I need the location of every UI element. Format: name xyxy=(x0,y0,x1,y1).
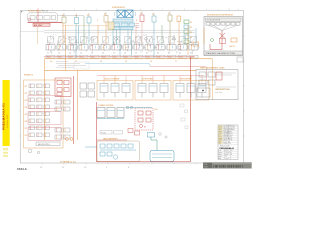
svg-text:1V12: 1V12 xyxy=(168,57,172,59)
svg-text:LH SYSTEM: LH SYSTEM xyxy=(142,78,153,80)
svg-text:2V7: 2V7 xyxy=(25,128,28,130)
svg-text:6: 6 xyxy=(140,9,141,11)
svg-text:1V13: 1V13 xyxy=(179,57,183,59)
svg-text:a8: a8 xyxy=(124,53,126,55)
svg-text:b4: b4 xyxy=(179,53,181,55)
svg-text:2V5: 2V5 xyxy=(25,114,28,116)
svg-text:a6: a6 xyxy=(102,53,104,55)
svg-text:1 von 4: 1 von 4 xyxy=(224,158,229,160)
svg-text:a7: a7 xyxy=(113,53,115,55)
svg-text:a2: a2 xyxy=(58,53,60,55)
svg-text:4: 4 xyxy=(96,9,97,11)
svg-text:a4: a4 xyxy=(80,53,82,55)
svg-text:max. 8 bar: max. 8 bar xyxy=(215,92,223,94)
svg-text:C: C xyxy=(230,158,231,160)
svg-text:STEUERUNG KOMPRESSOR: STEUERUNG KOMPRESSOR xyxy=(207,14,234,16)
svg-text:07: 07 xyxy=(75,61,77,63)
svg-text:V1: V1 xyxy=(62,15,64,17)
svg-text:2V3: 2V3 xyxy=(25,100,28,102)
svg-text:a3: a3 xyxy=(69,53,71,55)
svg-text:EINHEIT A: EINHEIT A xyxy=(24,74,33,77)
svg-text:08: 08 xyxy=(100,61,102,63)
svg-text:b1: b1 xyxy=(146,53,148,55)
svg-text:▌▐█▍▐▌▌█▍▌▐▌▌█▐▍▌█▐▌▍▐: ▌▐█▍▐▌▌█▍▌▐▌▌█▐▍▌█▐▌▍▐ xyxy=(213,165,244,168)
svg-text:09: 09 xyxy=(125,61,127,63)
svg-text:2V2: 2V2 xyxy=(25,93,28,95)
svg-text:STANDARD DIAGRAM SYSTEM: STANDARD DIAGRAM SYSTEM xyxy=(206,52,236,55)
svg-text:2V6: 2V6 xyxy=(25,121,28,123)
svg-text:FILTER REG 1/4: FILTER REG 1/4 xyxy=(28,11,41,13)
svg-text:b2: b2 xyxy=(157,53,159,55)
svg-text:PNEUMA0AA-01: PNEUMA0AA-01 xyxy=(220,147,235,150)
svg-text:1V06: 1V06 xyxy=(102,57,106,59)
svg-text:7: 7 xyxy=(162,9,163,11)
svg-text:b3: b3 xyxy=(168,53,170,55)
svg-text:V3: V3 xyxy=(87,15,89,17)
svg-text:8: 8 xyxy=(184,9,185,11)
svg-text:1V05: 1V05 xyxy=(91,57,95,59)
svg-text:2V1: 2V1 xyxy=(25,86,28,88)
svg-text:Name: Name xyxy=(218,140,222,142)
svg-text:3: 3 xyxy=(74,9,75,11)
svg-text:10: 10 xyxy=(228,9,230,11)
svg-text:Schaltplan 2008: Schaltplan 2008 xyxy=(6,115,9,128)
svg-text:9: 9 xyxy=(206,9,207,11)
svg-text:1V02: 1V02 xyxy=(58,57,62,59)
svg-text:1 2 3 4 5 6 7 8 9: 1 2 3 4 5 6 7 8 9 xyxy=(207,20,220,22)
svg-text:1V09: 1V09 xyxy=(135,57,139,59)
svg-text:CHUCK SYSTEM: CHUCK SYSTEM xyxy=(104,78,119,80)
svg-text:Name: Name xyxy=(218,154,222,156)
svg-text:11: 11 xyxy=(175,61,177,63)
svg-text:1V11: 1V11 xyxy=(157,57,161,59)
svg-text:KOMPRESSOR: KOMPRESSOR xyxy=(112,7,126,9)
svg-text:1V08: 1V08 xyxy=(124,57,128,59)
svg-text:V2: V2 xyxy=(75,15,77,17)
svg-text:LOWER SYSTEM: LOWER SYSTEM xyxy=(98,105,114,107)
svg-text:V7: V7 xyxy=(168,13,170,15)
svg-text:Mueller: Mueller xyxy=(224,154,229,156)
svg-text:a9: a9 xyxy=(135,53,137,55)
svg-text:1534-A: 1534-A xyxy=(17,167,28,171)
svg-text:12.04.08: 12.04.08 xyxy=(224,152,229,154)
svg-text:Index C: Index C xyxy=(228,134,233,136)
svg-text:24V DC: 24V DC xyxy=(229,46,236,48)
svg-text:V5: V5 xyxy=(140,13,142,15)
svg-text:840-22: 840-22 xyxy=(224,150,228,152)
svg-text:10: 10 xyxy=(150,61,152,63)
svg-text:a5: a5 xyxy=(91,53,93,55)
svg-text:1V04: 1V04 xyxy=(80,57,84,59)
svg-text:Rev 02: Rev 02 xyxy=(228,133,232,135)
svg-text:Ers d: Ers d xyxy=(218,136,221,138)
svg-text:GmbH: GmbH xyxy=(204,166,208,168)
svg-text:1 v 4: 1 v 4 xyxy=(224,141,227,143)
svg-text:K1: K1 xyxy=(190,22,192,24)
svg-text:WARTUNGSEINHEIT LINKS: WARTUNGSEINHEIT LINKS xyxy=(200,66,225,69)
svg-text:SCHEMA 12 bar: SCHEMA 12 bar xyxy=(60,160,76,163)
svg-text:AIR UNIT: AIR UNIT xyxy=(34,24,43,27)
svg-text:3V1: 3V1 xyxy=(155,109,158,111)
svg-text:2: 2 xyxy=(52,9,53,11)
svg-text:Urspr: Urspr xyxy=(218,133,222,135)
svg-text:v 4: v 4 xyxy=(230,152,232,154)
svg-text:1V07: 1V07 xyxy=(113,57,117,59)
svg-text:1:10: 1:10 xyxy=(224,156,227,158)
svg-text:RH SYSTEM: RH SYSTEM xyxy=(180,78,191,80)
svg-text:1V03: 1V03 xyxy=(69,57,73,59)
svg-text:Prf OK: Prf OK xyxy=(228,140,232,142)
svg-text:a1: a1 xyxy=(47,53,49,55)
svg-text:PU-01: PU-01 xyxy=(101,132,106,134)
svg-text:FRL 1/4: FRL 1/4 xyxy=(42,11,48,13)
svg-text:1V01: 1V01 xyxy=(47,57,51,59)
svg-text:06: 06 xyxy=(50,61,52,63)
svg-text:PN-0B: PN-0B xyxy=(224,136,228,138)
svg-text:Zchn: Zchn xyxy=(218,150,221,152)
svg-text:V4: V4 xyxy=(104,13,106,15)
svg-text:PNEUMA0AA-01: PNEUMA0AA-01 xyxy=(2,103,6,130)
svg-text:Bearb: Bearb xyxy=(218,127,222,129)
svg-text:DRUCKLUFT 6 bar: DRUCKLUFT 6 bar xyxy=(215,88,230,91)
svg-text:V6: V6 xyxy=(152,14,154,16)
svg-text:K2: K2 xyxy=(190,27,192,29)
svg-text:BAUGRUPPE 4: BAUGRUPPE 4 xyxy=(38,143,50,146)
svg-text:2V4: 2V4 xyxy=(25,107,28,109)
svg-text:2V8: 2V8 xyxy=(25,135,28,137)
svg-text:b5: b5 xyxy=(190,53,192,55)
svg-text:Norm: Norm xyxy=(218,131,221,133)
svg-text:1V10: 1V10 xyxy=(146,57,150,59)
svg-text:Bl 1: Bl 1 xyxy=(230,150,233,152)
